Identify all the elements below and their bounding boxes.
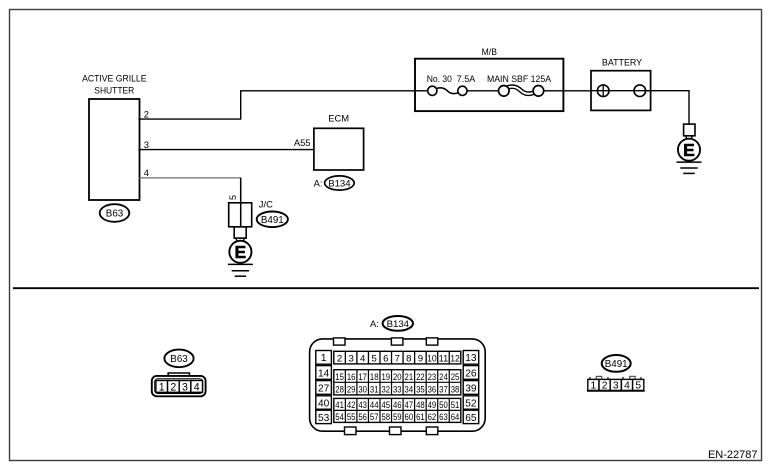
svg-text:45: 45	[381, 400, 390, 410]
svg-text:36: 36	[428, 384, 437, 394]
fuse MAIN SBF 125A	[487, 73, 552, 96]
svg-text:E: E	[683, 140, 695, 160]
svg-text:2: 2	[144, 108, 149, 119]
svg-text:17: 17	[358, 372, 367, 382]
svg-text:2: 2	[170, 381, 176, 393]
svg-text:52: 52	[465, 398, 477, 409]
svg-text:3: 3	[348, 354, 353, 365]
svg-text:11: 11	[439, 354, 449, 365]
svg-text:5: 5	[635, 381, 641, 392]
svg-text:4: 4	[194, 381, 200, 393]
component box ACTIVE GRILLE SHUTTER	[82, 73, 146, 200]
wire inside M/B	[415, 90, 428, 92]
svg-text:15: 15	[335, 372, 344, 382]
svg-text:B491: B491	[605, 359, 628, 370]
svg-text:7.5A: 7.5A	[457, 73, 476, 84]
svg-text:18: 18	[370, 372, 379, 382]
svg-text:E: E	[235, 242, 247, 262]
svg-text:53: 53	[318, 413, 330, 424]
svg-text:37: 37	[439, 384, 448, 394]
svg-text:B491: B491	[261, 215, 284, 226]
svg-text:65: 65	[465, 413, 477, 424]
svg-text:24: 24	[439, 372, 448, 382]
connector label A: B134 (schematic)	[314, 176, 355, 190]
svg-text:8: 8	[406, 354, 411, 365]
svg-text:39: 39	[465, 383, 477, 394]
svg-text:38: 38	[451, 384, 460, 394]
svg-text:ECM: ECM	[328, 112, 349, 123]
svg-text:44: 44	[370, 400, 379, 410]
svg-text:ACTIVE GRILLE: ACTIVE GRILLE	[82, 73, 146, 84]
svg-text:BATTERY: BATTERY	[602, 57, 643, 68]
svg-text:B63: B63	[170, 354, 188, 365]
svg-text:No. 30: No. 30	[427, 73, 452, 84]
svg-text:1: 1	[159, 381, 165, 393]
connector label A: B134 (pinout)	[370, 316, 413, 331]
ground E (battery side)	[677, 124, 702, 173]
svg-text:13: 13	[465, 353, 477, 364]
connector label B491 (pinout)	[602, 355, 631, 372]
svg-text:SHUTTER: SHUTTER	[94, 84, 134, 95]
svg-text:32: 32	[381, 384, 390, 394]
svg-text:A:: A:	[314, 178, 323, 189]
svg-text:1: 1	[321, 353, 327, 364]
svg-text:3: 3	[182, 381, 188, 393]
svg-text:21: 21	[405, 372, 414, 382]
svg-text:60: 60	[405, 412, 414, 422]
svg-text:2: 2	[602, 381, 608, 392]
svg-text:J/C: J/C	[259, 199, 273, 210]
svg-text:55: 55	[347, 412, 356, 422]
svg-text:47: 47	[405, 400, 414, 410]
svg-text:23: 23	[428, 372, 437, 382]
svg-text:43: 43	[358, 400, 367, 410]
svg-text:31: 31	[370, 384, 379, 394]
svg-text:30: 30	[358, 384, 367, 394]
svg-text:B134: B134	[387, 319, 410, 330]
svg-text:26: 26	[465, 368, 477, 379]
ECM box	[314, 112, 364, 170]
svg-text:10: 10	[427, 354, 437, 365]
fuse No. 30 7.5A	[427, 73, 476, 95]
svg-text:B63: B63	[106, 209, 124, 220]
svg-text:4: 4	[144, 167, 149, 178]
wire battery to ground	[645, 91, 689, 124]
svg-text:50: 50	[439, 400, 448, 410]
svg-text:3: 3	[144, 139, 149, 150]
svg-text:34: 34	[405, 384, 414, 394]
svg-text:16: 16	[347, 372, 356, 382]
svg-text:6: 6	[383, 354, 388, 365]
svg-text:5: 5	[228, 195, 238, 200]
svg-text:4: 4	[360, 354, 366, 365]
svg-text:57: 57	[370, 412, 379, 422]
svg-text:14: 14	[318, 368, 330, 379]
svg-text:4: 4	[624, 381, 630, 392]
svg-text:35: 35	[416, 384, 425, 394]
svg-text:3: 3	[613, 381, 619, 392]
svg-text:62: 62	[428, 412, 437, 422]
svg-text:B134: B134	[328, 178, 351, 189]
svg-text:9: 9	[418, 354, 423, 365]
svg-text:20: 20	[393, 372, 402, 382]
svg-text:12: 12	[450, 354, 460, 365]
svg-text:56: 56	[358, 412, 367, 422]
svg-text:M/B: M/B	[482, 46, 497, 57]
svg-text:64: 64	[451, 412, 460, 422]
svg-text:MAIN SBF 125A: MAIN SBF 125A	[487, 73, 552, 84]
section divider line	[13, 287, 759, 289]
connector label B63 (pinout)	[164, 350, 193, 368]
svg-text:40: 40	[318, 398, 330, 409]
svg-text:54: 54	[335, 412, 344, 422]
svg-text:42: 42	[347, 400, 356, 410]
svg-text:5: 5	[372, 354, 377, 365]
svg-text:29: 29	[347, 384, 356, 394]
svg-text:58: 58	[381, 412, 390, 422]
svg-text:7: 7	[395, 354, 400, 365]
svg-text:41: 41	[335, 400, 344, 410]
connector view B491 (5-pin)	[587, 376, 645, 391]
svg-text:51: 51	[451, 400, 460, 410]
svg-text:1: 1	[591, 381, 597, 392]
svg-text:59: 59	[393, 412, 402, 422]
svg-text:49: 49	[428, 400, 437, 410]
svg-text:63: 63	[439, 412, 448, 422]
svg-text:48: 48	[416, 400, 425, 410]
connector label B63 (schematic)	[100, 204, 130, 222]
svg-text:22: 22	[416, 372, 425, 382]
connector view B63 (4-pin)	[152, 373, 206, 396]
svg-text:33: 33	[393, 384, 402, 394]
connector label B491 (schematic)	[257, 212, 288, 228]
junction connector J/C box	[229, 199, 273, 239]
wire: shutter pin 2 to M/B	[138, 91, 415, 119]
svg-text:25: 25	[451, 372, 460, 382]
svg-text:A:: A:	[370, 318, 379, 329]
fuse box M/B	[415, 46, 563, 111]
wire: shutter pin 3 to ECM A55	[138, 149, 314, 151]
ground E (J/C side)	[228, 238, 253, 276]
battery	[591, 57, 651, 111]
svg-text:A55: A55	[294, 137, 311, 148]
svg-text:EN-22787: EN-22787	[708, 449, 758, 461]
svg-text:19: 19	[381, 372, 390, 382]
svg-text:28: 28	[335, 384, 344, 394]
wire: shutter pin 4 to J/C	[138, 177, 241, 179]
svg-text:27: 27	[318, 383, 330, 394]
svg-text:61: 61	[416, 412, 425, 422]
connector view B134 (65-pin ECM connector)	[310, 338, 486, 435]
svg-text:46: 46	[393, 400, 402, 410]
svg-text:2: 2	[337, 354, 342, 365]
